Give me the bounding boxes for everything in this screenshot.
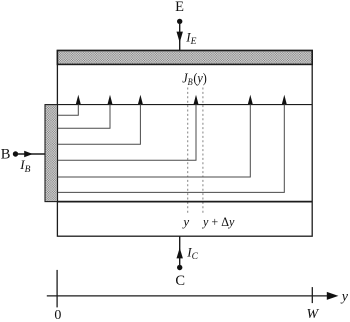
label 0 [54,308,61,322]
y axis line [47,295,328,297]
label B [1,146,11,162]
base contact (hatched left bar) [45,105,58,202]
label I_B [19,157,30,175]
base current flow line 2 [58,95,113,128]
label I_E [185,29,196,47]
svg-text:B: B [1,146,11,162]
base current flow line 4 [58,95,199,160]
base current flow line 3 [58,95,143,145]
svg-text:0: 0 [54,308,61,322]
svg-text:y: y [340,290,349,305]
label y + dy (strip right) [201,214,235,228]
base current flow line 6 [58,95,287,193]
arrowhead y axis [327,292,339,300]
wire collector lead [179,236,181,266]
svg-text:W: W [306,307,319,322]
svg-text:C: C [175,273,185,289]
dashed line at y+dy [202,88,204,215]
label J_B(y) [182,70,207,87]
label y (strip left) [181,214,189,229]
emitter-base junction line [57,104,312,106]
svg-text:IB: IB [19,157,30,175]
label I_C [186,244,198,262]
svg-text:IC: IC [186,244,198,262]
emitter contact (hatched top band) [57,51,312,65]
wire emitter lead [179,23,181,51]
base terminal node B [13,151,18,156]
svg-text:y: y [181,214,189,229]
label E [175,0,184,15]
collector terminal node C [177,265,182,270]
label y (axis) [340,290,349,305]
svg-text:IE: IE [185,29,196,47]
svg-text:JB(y): JB(y) [182,70,207,87]
base current flow line 1 [58,95,81,116]
arrowhead I_B (right) [24,151,33,157]
arrowhead I_C (up) [177,248,183,259]
base current flow line 5 [58,95,253,177]
svg-text:y + Δy: y + Δy [201,214,235,228]
dashed line at y [187,88,189,215]
tick 0 [56,270,58,308]
label W [306,307,319,322]
label C [175,273,185,289]
base-collector junction line [57,201,312,203]
device body rectangle [57,51,312,237]
emitter terminal node E [177,19,182,24]
tick W [311,287,313,303]
arrowhead I_E (down) [177,32,183,43]
svg-text:E: E [175,0,184,15]
wire base lead [17,153,45,155]
